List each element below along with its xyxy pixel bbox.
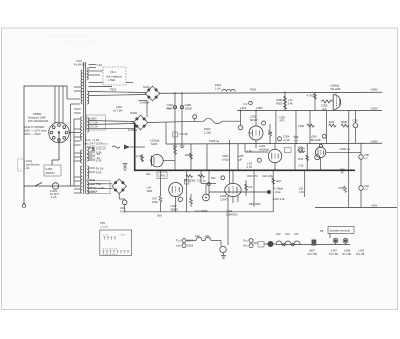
svg-text:Hum balance: Hum balance bbox=[106, 75, 122, 79]
svg-text:R21 100k: R21 100k bbox=[184, 179, 196, 183]
svg-text:P302: P302 bbox=[250, 88, 257, 92]
svg-text:+65V: +65V bbox=[371, 204, 378, 208]
svg-text:par/Service: par/Service bbox=[26, 163, 40, 167]
svg-text:A40s 3.3k: A40s 3.3k bbox=[273, 197, 286, 201]
svg-text:AC117V 50/60Hz: AC117V 50/60Hz bbox=[24, 125, 45, 129]
svg-text:6.3V 2A: 6.3V 2A bbox=[88, 125, 98, 129]
svg-text:A304: A304 bbox=[298, 147, 305, 151]
svg-text:1N4002: 1N4002 bbox=[128, 128, 138, 132]
svg-text:Aux: Aux bbox=[176, 244, 181, 248]
svg-text:0.6A: 0.6A bbox=[97, 63, 103, 67]
svg-text:C30: C30 bbox=[364, 184, 369, 188]
svg-text:L301: L301 bbox=[116, 105, 122, 109]
svg-text:L63: L63 bbox=[285, 232, 290, 236]
svg-text:6R-R7: 6R-R7 bbox=[250, 118, 258, 122]
svg-text:4 7 6: 4 7 6 bbox=[103, 235, 109, 237]
svg-text:40μF: 40μF bbox=[167, 106, 174, 110]
svg-text:L20x 6BM8: L20x 6BM8 bbox=[194, 209, 208, 213]
svg-text:ch 7.5H: ch 7.5H bbox=[113, 109, 122, 113]
svg-text:C30: C30 bbox=[353, 119, 358, 123]
svg-text:6CY-88: 6CY-88 bbox=[329, 252, 338, 256]
svg-text:C305: C305 bbox=[321, 104, 328, 108]
svg-text:1.5k: 1.5k bbox=[299, 190, 305, 194]
svg-text:Tun: Tun bbox=[243, 239, 248, 243]
svg-text:100 120/200/240: 100 120/200/240 bbox=[28, 119, 49, 123]
svg-text:47k: 47k bbox=[268, 131, 273, 135]
svg-text:8 5 6 3 0 9 4 2: 8 5 6 3 0 9 4 2 bbox=[103, 254, 118, 256]
svg-text:R302: R302 bbox=[204, 127, 211, 131]
svg-text:4.7kΩ: 4.7kΩ bbox=[307, 94, 314, 98]
svg-text:160k: 160k bbox=[147, 189, 153, 193]
svg-text:C30: C30 bbox=[364, 153, 369, 157]
svg-text:T101: T101 bbox=[76, 59, 83, 63]
svg-text:1.65: 1.65 bbox=[247, 162, 253, 166]
svg-text:6C(-88: 6C(-88 bbox=[356, 252, 365, 256]
svg-text:100k: 100k bbox=[152, 200, 158, 204]
svg-text:R30: R30 bbox=[298, 157, 303, 161]
svg-text:+280V: +280V bbox=[370, 88, 378, 92]
svg-text:4.7: 4.7 bbox=[364, 157, 368, 161]
svg-text:5 2 7 3 0 2 1 6: 5 2 7 3 0 2 1 6 bbox=[103, 248, 118, 250]
svg-text:Aux: Aux bbox=[243, 244, 248, 248]
svg-text:4.7μF: 4.7μF bbox=[283, 138, 290, 142]
svg-text:470k: 470k bbox=[338, 186, 344, 190]
svg-text:0.45: 0.45 bbox=[247, 165, 253, 169]
svg-text:0.01μ: 0.01μ bbox=[222, 158, 229, 162]
svg-text:6.3V 5A: 6.3V 5A bbox=[88, 189, 98, 193]
svg-text:L62: L62 bbox=[276, 232, 281, 236]
svg-text:1.5k: 1.5k bbox=[247, 149, 253, 153]
svg-text:470: 470 bbox=[280, 119, 285, 123]
svg-text:R20 47k: R20 47k bbox=[248, 174, 259, 178]
svg-text:6.3V — 3A: 6.3V — 3A bbox=[87, 152, 100, 156]
svg-text:6R-HH8: 6R-HH8 bbox=[311, 138, 321, 142]
svg-text:400k: 400k bbox=[341, 120, 347, 124]
svg-text:2618: 2618 bbox=[187, 244, 193, 248]
svg-text:SP800: SP800 bbox=[33, 112, 42, 116]
svg-text:Po 84-05: Po 84-05 bbox=[74, 63, 85, 67]
svg-text:Snapped 1948: Snapped 1948 bbox=[28, 116, 46, 120]
svg-text:6AQ8(a): 6AQ8(a) bbox=[259, 148, 269, 152]
svg-text:5V 2A: 5V 2A bbox=[96, 166, 104, 170]
svg-text:Si301: Si301 bbox=[143, 85, 150, 89]
svg-text:1.2kΩ: 1.2kΩ bbox=[204, 131, 211, 135]
svg-text:C20 100μ: C20 100μ bbox=[262, 174, 274, 178]
svg-text:P8: P8 bbox=[320, 229, 324, 233]
svg-text:C22 1μ: C22 1μ bbox=[197, 179, 206, 183]
svg-text:2 3 8: 2 3 8 bbox=[120, 235, 126, 237]
svg-text:2A: 2A bbox=[26, 166, 29, 170]
svg-text:1.50k: 1.50k bbox=[298, 124, 305, 128]
svg-text:C·47μF: C·47μF bbox=[179, 132, 188, 136]
svg-text:+265V: +265V bbox=[370, 140, 378, 144]
svg-text:C47: C47 bbox=[152, 197, 157, 201]
svg-text:440k: 440k bbox=[329, 120, 335, 124]
svg-text:L201(a): L201(a) bbox=[150, 139, 159, 143]
svg-text:56k: 56k bbox=[211, 176, 216, 180]
svg-text:F101: F101 bbox=[26, 159, 33, 163]
svg-text:R303: R303 bbox=[276, 101, 283, 105]
svg-text:6R-HH8: 6R-HH8 bbox=[331, 87, 341, 91]
svg-text:Tun: Tun bbox=[176, 239, 181, 243]
svg-text:R80 100k: R80 100k bbox=[249, 202, 261, 206]
svg-text:L306: L306 bbox=[311, 135, 317, 139]
svg-text:L203: L203 bbox=[220, 194, 226, 198]
svg-text:L302: L302 bbox=[250, 115, 256, 119]
svg-text:TB1: TB1 bbox=[100, 221, 105, 225]
svg-text:SW/CH: SW/CH bbox=[46, 171, 55, 175]
svg-text:to sp/88: to sp/88 bbox=[100, 226, 109, 229]
svg-text:1.2A: 1.2A bbox=[51, 195, 57, 199]
svg-text:470k: 470k bbox=[136, 155, 142, 159]
svg-text:1.5kΩ: 1.5kΩ bbox=[108, 78, 115, 82]
svg-text:1.5k: 1.5k bbox=[298, 164, 304, 168]
svg-text:110V — 117V spec: 110V — 117V spec bbox=[24, 129, 47, 133]
svg-text:C30: C30 bbox=[298, 150, 303, 154]
svg-text:+260V: +260V bbox=[370, 107, 378, 111]
svg-text:L204: L204 bbox=[226, 209, 232, 213]
svg-text:S-801: S-801 bbox=[46, 167, 54, 171]
svg-text:C 47μ: C 47μ bbox=[158, 174, 166, 178]
svg-text:Rₖ Right: Rₖ Right bbox=[273, 187, 283, 191]
svg-text:4.7: 4.7 bbox=[364, 188, 368, 192]
svg-text:1μF: 1μF bbox=[238, 158, 243, 162]
svg-text:0.6: 0.6 bbox=[244, 102, 248, 106]
svg-text:6AV6: 6AV6 bbox=[151, 142, 158, 146]
svg-text:100k: 100k bbox=[185, 153, 191, 157]
svg-text:L40: L40 bbox=[147, 186, 152, 190]
svg-text:L203: L203 bbox=[259, 144, 265, 148]
svg-text:L306(a): L306(a) bbox=[330, 84, 339, 88]
svg-text:1N4004: 1N4004 bbox=[140, 101, 150, 105]
svg-text:VR-1: VR-1 bbox=[110, 70, 117, 74]
svg-text:C305 4μ: C305 4μ bbox=[209, 139, 220, 143]
svg-text:6CY-0B: 6CY-0B bbox=[308, 252, 317, 256]
svg-text:Si302: Si302 bbox=[130, 111, 137, 115]
svg-text:L309: L309 bbox=[358, 249, 364, 253]
svg-text:1.6A: 1.6A bbox=[215, 86, 221, 90]
svg-text:|| ||||| ||| |||| || ||||| |||: || ||||| ||| |||| || ||||| ||||| ||| |||… bbox=[60, 40, 98, 44]
svg-text:L408: L408 bbox=[344, 249, 350, 253]
svg-text:12AX7: 12AX7 bbox=[220, 198, 229, 202]
svg-text:3.4k: 3.4k bbox=[288, 101, 294, 105]
svg-text:Speaker terminal: Speaker terminal bbox=[330, 229, 351, 233]
svg-text:L61: L61 bbox=[205, 234, 210, 238]
svg-text:560: 560 bbox=[157, 214, 162, 218]
svg-text:L chan: L chan bbox=[273, 190, 281, 194]
svg-text:+B07: +B07 bbox=[309, 249, 316, 253]
svg-text:40μ: 40μ bbox=[146, 172, 151, 176]
svg-text:C204: C204 bbox=[222, 154, 229, 158]
svg-text:x64: x64 bbox=[294, 232, 299, 236]
svg-text:1k47: 1k47 bbox=[276, 179, 282, 183]
svg-text:C303: C303 bbox=[256, 106, 263, 110]
svg-text:L303: L303 bbox=[240, 106, 246, 110]
svg-text:6CY-88: 6CY-88 bbox=[342, 252, 351, 256]
svg-text:P301: P301 bbox=[110, 88, 117, 92]
svg-text:||||| |||| ||| |||||| |||| |||: ||||| |||| ||| |||||| |||| ||| ||||| |||… bbox=[45, 34, 92, 38]
svg-text:6.3V ~ 0.3A: 6.3V ~ 0.3A bbox=[85, 138, 99, 142]
svg-text:L20: L20 bbox=[299, 186, 304, 190]
svg-text:47k: 47k bbox=[248, 185, 253, 189]
svg-text:— 6.3V ————: — 6.3V ———— bbox=[86, 145, 107, 149]
svg-text:6.3V — 2A: 6.3V — 2A bbox=[87, 156, 100, 160]
svg-text:L407: L407 bbox=[331, 249, 337, 253]
svg-text:100μF: 100μF bbox=[185, 106, 193, 110]
svg-text:L60: L60 bbox=[195, 234, 200, 238]
svg-text:L205: L205 bbox=[238, 154, 244, 158]
svg-text:CT 0.2A: CT 0.2A bbox=[88, 121, 98, 125]
svg-text:6BM8: 6BM8 bbox=[171, 208, 179, 212]
svg-text:220V — 240V: 220V — 240V bbox=[24, 132, 41, 136]
svg-text:0.6A: 0.6A bbox=[96, 170, 102, 174]
svg-text:B 250V: B 250V bbox=[88, 117, 97, 121]
